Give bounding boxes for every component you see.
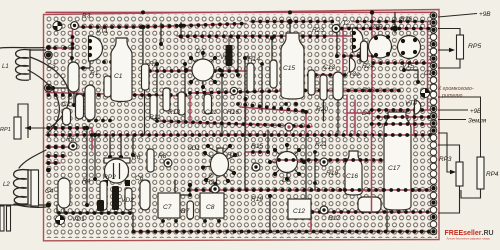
wire R5 net y147 bbox=[46, 146, 70, 148]
wire y90 mid-right bbox=[190, 90, 400, 93]
svg-text:RP4: RP4 bbox=[486, 171, 499, 178]
wire bus y135 over C17 bbox=[382, 134, 414, 136]
svg-text:VD3: VD3 bbox=[220, 54, 233, 61]
wire vertical x189 bbox=[180, 23, 182, 37]
wire vertical x343 bbox=[342, 29, 344, 76]
svg-text:R19: R19 bbox=[251, 196, 263, 203]
transistor VT1 bbox=[89, 36, 103, 61]
capacitor C3 bbox=[68, 62, 79, 92]
wire input net y48 bbox=[46, 47, 73, 49]
svg-text:VD2: VD2 bbox=[121, 197, 134, 204]
jack pins bottom-left bbox=[0, 206, 11, 231]
wire ground lead bottom-left bbox=[0, 204, 47, 206]
potentiometer RP3 bbox=[438, 133, 463, 213]
wire vertical x245 red bbox=[245, 99, 247, 135]
svg-text:R17: R17 bbox=[328, 215, 340, 222]
relay box bottom-right bbox=[358, 197, 381, 212]
wire link y68 bbox=[72, 48, 90, 68]
wire right rail y117 bbox=[376, 116, 434, 118]
capacitor C4 bbox=[58, 178, 70, 208]
wire vertical x360 bbox=[359, 52, 361, 62]
junctions wire ends bbox=[87, 119, 91, 123]
wire top bus y12 bbox=[46, 11, 434, 13]
wire R2 lower lead bbox=[144, 90, 146, 135]
wire right rail y110 bbox=[370, 109, 434, 111]
junctions y71 bbox=[148, 69, 152, 73]
junctions top bus bbox=[370, 10, 374, 14]
wire vertical x355 bbox=[354, 100, 356, 135]
wire L1 curve A bbox=[30, 57, 69, 127]
IC D3 spider bbox=[268, 143, 306, 181]
svg-text:R11: R11 bbox=[149, 114, 161, 121]
junctions y121 bbox=[155, 119, 159, 123]
svg-text:Лучшие бесплатные цифровые тов: Лучшие бесплатные цифровые товары bbox=[447, 237, 491, 241]
wire vertical x306 bbox=[305, 135, 307, 215]
junctions y128 bbox=[46, 126, 50, 130]
svg-text:R23: R23 bbox=[312, 27, 324, 34]
wire vertical x157 bbox=[156, 64, 158, 121]
resistor R14 bbox=[247, 63, 254, 92]
capacitor C7 bbox=[158, 193, 180, 218]
connector frame left bbox=[31, 170, 39, 206]
wire y212 bottom right bbox=[311, 211, 434, 213]
logo FREEseller.RU bbox=[445, 230, 494, 241]
wire +9V top right bbox=[438, 14, 477, 18]
wire vertical x121 bbox=[120, 135, 122, 157]
wire long bus y135 bbox=[46, 134, 434, 136]
svg-text:C8: C8 bbox=[206, 204, 215, 211]
svg-text:C1: C1 bbox=[114, 73, 123, 80]
wire vertical x268 bbox=[267, 130, 269, 152]
pad R18 bbox=[320, 158, 328, 166]
svg-text:R9: R9 bbox=[206, 179, 215, 186]
wire y71 mid bbox=[150, 70, 246, 72]
wire vertical x290 bbox=[289, 22, 291, 39]
svg-text:R6: R6 bbox=[132, 154, 141, 161]
junctions left nets bbox=[46, 145, 50, 149]
svg-text:VT3o: VT3o bbox=[344, 71, 360, 78]
capacitor C16 bbox=[345, 151, 362, 195]
resistor R12 bbox=[163, 88, 170, 111]
junctions y75 y90 bbox=[307, 73, 311, 77]
potentiometer RP4 bbox=[438, 97, 484, 198]
junctions bus y190 bbox=[187, 188, 191, 192]
wire bus y190 over C16 C17 bbox=[343, 189, 414, 191]
wire C14 lead bbox=[404, 70, 418, 82]
svg-text:D4: D4 bbox=[362, 110, 371, 117]
svg-text:C7: C7 bbox=[163, 204, 172, 211]
pad R17 bbox=[320, 206, 328, 214]
transistor VT2 bbox=[353, 28, 364, 52]
resistor R4 bbox=[100, 181, 107, 210]
wire long bus y190 bbox=[188, 189, 434, 191]
wire vertical x238 bbox=[237, 37, 239, 75]
board PCB outline bbox=[44, 10, 440, 241]
wire +9V rail top bbox=[250, 21, 333, 23]
svg-text:C3: C3 bbox=[47, 63, 56, 70]
junctions bus y135 bbox=[47, 133, 51, 137]
inductor L2 bbox=[14, 169, 39, 204]
pad R8 bbox=[164, 159, 172, 167]
inductor L1 bbox=[16, 49, 47, 80]
potentiometer RP5 bbox=[438, 29, 464, 69]
wire y95 left bbox=[46, 93, 188, 97]
wire R14 lead x262 bbox=[261, 64, 263, 111]
capacitor C2 bbox=[63, 108, 71, 125]
svg-text:VD1: VD1 bbox=[72, 216, 85, 223]
wire y152 stub bbox=[246, 151, 268, 153]
resistor R13 bbox=[178, 92, 185, 115]
capacitor C13 bbox=[333, 72, 343, 100]
svg-text:R18: R18 bbox=[326, 170, 338, 177]
pad R16 bbox=[230, 87, 237, 94]
wire vertical x222 bbox=[221, 75, 223, 135]
svg-text:RP2: RP2 bbox=[103, 174, 116, 181]
wire link y88 bbox=[53, 88, 74, 105]
junctions R26 net bbox=[340, 27, 344, 31]
wire vertical x371 bbox=[371, 13, 373, 135]
wire vertical x306 red upper bbox=[305, 112, 307, 135]
resistor R7 bbox=[187, 201, 194, 219]
wire y195 row bbox=[160, 180, 190, 195]
wire y63 right bbox=[372, 62, 434, 64]
capacitor C11 bbox=[204, 94, 212, 114]
svg-text:R16: R16 bbox=[227, 109, 239, 116]
svg-text:C17: C17 bbox=[388, 165, 400, 172]
svg-text:C11: C11 bbox=[205, 109, 217, 116]
resistor R11 bbox=[150, 95, 157, 119]
svg-text:D2: D2 bbox=[196, 48, 205, 55]
svg-text:C12: C12 bbox=[293, 208, 305, 215]
svg-text:рителю: рителю bbox=[441, 93, 462, 99]
svg-text:L2: L2 bbox=[3, 182, 10, 188]
capacitor C12 bbox=[288, 199, 311, 219]
svg-text:D3: D3 bbox=[282, 177, 291, 184]
wire vertical x87 bbox=[86, 128, 88, 205]
diode VD2 bbox=[112, 186, 119, 210]
svg-text:VT2: VT2 bbox=[338, 20, 350, 27]
resistor R21 body bbox=[308, 70, 315, 95]
capacitor ovals mid-left bbox=[76, 94, 84, 119]
edge connector pad column right bbox=[430, 12, 437, 235]
wire right rail y124 bbox=[370, 123, 434, 125]
svg-text:L1: L1 bbox=[2, 64, 9, 70]
wire VD1 links bbox=[57, 205, 64, 213]
wire ground bbox=[438, 119, 466, 121]
pad mid C15 net bbox=[285, 123, 293, 131]
wire R26 net bbox=[340, 28, 434, 30]
svg-text:R21: R21 bbox=[315, 141, 327, 148]
IC D1 spider bbox=[201, 144, 237, 186]
svg-text:R2: R2 bbox=[149, 61, 158, 68]
resistor R24 bbox=[361, 41, 368, 62]
trimmer RP2 bbox=[103, 158, 130, 186]
svg-text:R20: R20 bbox=[316, 106, 328, 113]
capacitor near VD2 bbox=[125, 188, 132, 210]
transistor VT3 bbox=[350, 58, 356, 72]
junctions y56 y63 bbox=[342, 54, 346, 58]
IC D2 spider bbox=[184, 51, 222, 89]
wire vertical x311 bbox=[310, 212, 312, 231]
svg-text:R13: R13 bbox=[168, 109, 180, 116]
resistor R20 bbox=[320, 75, 327, 100]
wire y128 left bbox=[46, 127, 92, 129]
wire vertical x272 bbox=[271, 38, 273, 70]
wire base row y36 bbox=[177, 35, 351, 37]
wire vertical x371 lower bbox=[371, 135, 373, 212]
junctions R3 net bbox=[81, 25, 85, 29]
wire L2 curve top bbox=[19, 150, 46, 168]
wire y103 segment bbox=[240, 107, 308, 112]
svg-text:VT4: VT4 bbox=[405, 100, 417, 107]
svg-text:R10: R10 bbox=[227, 152, 239, 159]
svg-text:C13: C13 bbox=[323, 64, 335, 71]
junctions y160 bbox=[300, 158, 304, 162]
wire bottom bus y231 bbox=[133, 231, 434, 233]
pad R5 bbox=[69, 142, 77, 150]
wire vertical x110 bbox=[109, 135, 111, 157]
diode VD1 body bbox=[97, 200, 104, 211]
pad R23 bbox=[332, 25, 340, 33]
junctions y95 bbox=[47, 93, 51, 97]
svg-text:C15: C15 bbox=[283, 65, 295, 72]
svg-text:VT5: VT5 bbox=[402, 63, 414, 70]
svg-text:Земля: Земля bbox=[468, 118, 487, 125]
pad R3 bbox=[71, 22, 79, 30]
svg-text:R4: R4 bbox=[82, 178, 91, 185]
junctions bottom bus bbox=[132, 230, 136, 234]
wire rung y113 bbox=[347, 112, 372, 114]
svg-text:R7: R7 bbox=[181, 208, 190, 215]
wire vertical x387 bottom bbox=[386, 196, 388, 231]
svg-text:RP5: RP5 bbox=[468, 43, 481, 50]
wire R20 lead bbox=[323, 100, 325, 121]
junctions base row bbox=[179, 34, 183, 38]
wire top rail right of VT2 bbox=[352, 21, 434, 23]
pad R15 bbox=[252, 163, 260, 171]
wire vertical x245 bbox=[244, 58, 246, 190]
wire vertical x133 bbox=[132, 135, 134, 155]
svg-text:К громкогово-: К громкогово- bbox=[438, 86, 474, 92]
svg-text:+9B: +9B bbox=[479, 11, 491, 18]
svg-text:RP1: RP1 bbox=[0, 127, 11, 133]
svg-text:R14: R14 bbox=[248, 56, 260, 63]
svg-text:C6: C6 bbox=[135, 175, 144, 182]
svg-text:R3: R3 bbox=[82, 13, 91, 20]
svg-text:VT6: VT6 bbox=[370, 24, 382, 31]
wire input lead left bbox=[0, 46, 44, 49]
svg-text:R25: R25 bbox=[362, 87, 374, 94]
capacitor C6 bbox=[140, 180, 150, 210]
pad below D1 bbox=[211, 185, 219, 193]
wire bottom bus y213 bbox=[59, 213, 133, 231]
capacitor C1 bbox=[111, 38, 132, 102]
potentiometer RP1 bbox=[14, 104, 45, 139]
capacitor C8 bbox=[200, 193, 224, 218]
resistor right of R14 bbox=[270, 60, 277, 88]
wire vertical x185 bbox=[184, 64, 186, 121]
wire vertical x331 bbox=[336, 32, 338, 56]
wire C13 lead bbox=[337, 100, 339, 135]
transistor VT5 can bbox=[398, 36, 421, 59]
wire y75 segment bbox=[308, 74, 346, 76]
polarity mark C15 bbox=[246, 55, 250, 59]
wire L1 curve B bbox=[28, 70, 59, 133]
wire R3 net top-left bbox=[78, 24, 246, 28]
wire vertical x414 bbox=[413, 108, 415, 135]
junctions y213 row bbox=[160, 193, 164, 197]
wire y163 left bbox=[46, 162, 60, 164]
resistor R1 bbox=[104, 76, 111, 97]
wire vertical x427 bbox=[427, 22, 429, 111]
svg-text:VT1: VT1 bbox=[96, 28, 108, 35]
wire vertical x161 bbox=[160, 23, 162, 44]
wire vertical x95 bbox=[94, 135, 96, 179]
mounting hole top-left bbox=[53, 21, 62, 30]
wire R3 pad drop bbox=[72, 29, 74, 48]
svg-text:+9B: +9B bbox=[470, 108, 481, 115]
transistor VT4 bbox=[415, 100, 421, 114]
junctions y104 bbox=[236, 102, 240, 106]
wire y56 segment bbox=[343, 55, 374, 57]
wire y160 over C16 D3 bbox=[275, 159, 364, 161]
svg-text:оD1: оD1 bbox=[188, 145, 200, 152]
mounting hole bottom-left bbox=[55, 215, 64, 224]
capacitor C15 bbox=[281, 33, 304, 99]
mounting hole right bbox=[420, 88, 429, 97]
wire vertical x92 bbox=[91, 128, 93, 150]
resistor R6 bbox=[147, 149, 154, 172]
diode VD3 bbox=[226, 36, 233, 70]
svg-text:R15: R15 bbox=[251, 143, 263, 150]
svg-text:C16: C16 bbox=[346, 173, 358, 180]
capacitor C17 bbox=[384, 112, 411, 210]
resistor R2 bbox=[142, 64, 150, 90]
wire +9V mid bbox=[438, 109, 468, 111]
wire rails over C17 neck bbox=[386, 116, 410, 118]
wire vertical x315 bbox=[314, 152, 316, 190]
svg-text:R1: R1 bbox=[90, 70, 99, 77]
svg-text:R26: R26 bbox=[400, 16, 412, 23]
wire vertical x143 bbox=[142, 27, 144, 71]
wire L2 lead bottom bbox=[14, 204, 46, 207]
svg-text:C4: C4 bbox=[45, 188, 54, 195]
wire y160 mid-right bbox=[300, 159, 392, 161]
svg-text:RP3: RP3 bbox=[439, 156, 452, 163]
wire vertical x270 bottom bbox=[269, 196, 271, 231]
svg-text:R24: R24 bbox=[362, 63, 374, 70]
svg-text:R8: R8 bbox=[158, 153, 167, 160]
wire y121 mid bbox=[157, 121, 312, 127]
junctions right rails bbox=[370, 108, 374, 112]
wire vertical x190 red bbox=[189, 93, 191, 120]
wire y156 left bbox=[46, 155, 66, 157]
wire vertical x347 bbox=[346, 95, 348, 135]
pad left edge rings bbox=[45, 51, 53, 92]
junctions y212 bbox=[311, 210, 315, 214]
wire x395 drop bbox=[394, 12, 396, 33]
junctions 9V rail bbox=[251, 20, 255, 24]
transistor VT6 can bbox=[369, 35, 392, 58]
svg-text:C2: C2 bbox=[62, 101, 71, 108]
svg-text:R5: R5 bbox=[66, 136, 75, 143]
